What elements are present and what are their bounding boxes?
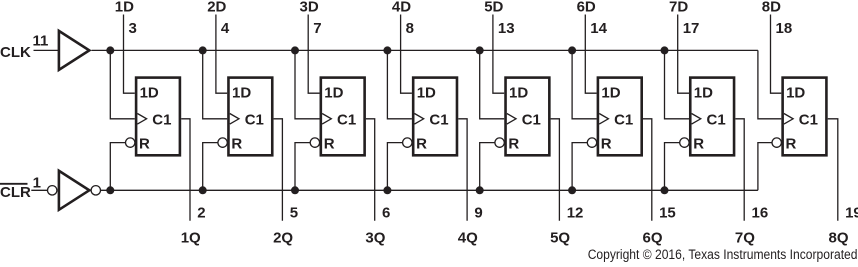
wire D input 8 — [771, 15, 782, 94]
svg-text:6: 6 — [382, 204, 390, 221]
svg-text:C1: C1 — [707, 111, 726, 128]
wire CLK drop 5 — [480, 50, 505, 118]
wire D input 6 — [585, 15, 596, 94]
svg-text:16: 16 — [752, 204, 769, 221]
svg-text:2Q: 2Q — [273, 230, 293, 247]
wire R drop 5 — [480, 143, 495, 191]
node CLK junction 2 — [199, 46, 207, 54]
node CLR junction 2 — [199, 186, 207, 194]
flip-flop 7 — [680, 78, 734, 156]
svg-text:4Q: 4Q — [458, 230, 478, 247]
wire Q output 7 — [735, 119, 744, 221]
svg-text:R: R — [231, 136, 242, 153]
flip-flop 1 — [126, 78, 180, 156]
node CLR junction 3 — [291, 186, 299, 194]
inverter CLR driver — [59, 171, 89, 210]
svg-text:11: 11 — [33, 33, 49, 50]
svg-text:CLR: CLR — [0, 184, 31, 201]
wire CLK drop 4 — [387, 50, 412, 118]
svg-text:C1: C1 — [245, 111, 264, 128]
svg-text:18: 18 — [776, 20, 793, 37]
svg-text:R: R — [139, 136, 150, 153]
svg-text:7: 7 — [313, 20, 321, 37]
svg-text:8: 8 — [406, 20, 414, 37]
flip-flop 6 — [587, 78, 641, 156]
wire CLK drop 1 — [110, 50, 135, 118]
flip-flop 3 — [310, 78, 364, 156]
CLR input label overline — [0, 183, 28, 185]
wire Q output 5 — [551, 119, 560, 221]
svg-text:R: R — [601, 136, 612, 153]
wire R drop 3 — [295, 143, 310, 191]
wire D input 4 — [401, 15, 412, 94]
flip-flop 4 — [403, 78, 457, 156]
wire D input 7 — [678, 15, 689, 94]
svg-text:1: 1 — [33, 175, 41, 192]
wire D input 5 — [493, 15, 504, 94]
wire Q output 4 — [458, 119, 467, 221]
wire D input 3 — [308, 15, 319, 94]
svg-text:14: 14 — [590, 20, 607, 37]
svg-text:1D: 1D — [115, 0, 134, 16]
svg-text:6Q: 6Q — [642, 230, 662, 247]
svg-text:4: 4 — [221, 20, 230, 37]
svg-text:5D: 5D — [484, 0, 503, 16]
node CLR junction 7 — [661, 186, 669, 194]
svg-text:R: R — [693, 136, 704, 153]
wire Q output 8 — [828, 119, 838, 221]
wire Q output 3 — [366, 119, 375, 221]
svg-text:15: 15 — [659, 204, 676, 221]
svg-text:17: 17 — [683, 20, 700, 37]
flip-flop 5 — [495, 78, 549, 156]
inverter CLR input bubble — [48, 186, 57, 195]
wire CLK drop 7 — [665, 50, 690, 118]
svg-text:13: 13 — [498, 20, 515, 37]
svg-text:CLK: CLK — [0, 44, 31, 61]
svg-text:C1: C1 — [337, 111, 356, 128]
svg-text:C1: C1 — [429, 111, 448, 128]
svg-text:12: 12 — [567, 204, 584, 221]
flip-flop 8 — [772, 78, 826, 156]
wire R drop 2 — [203, 143, 218, 191]
node CLK junction 6 — [568, 46, 576, 54]
buffer CLK driver — [59, 31, 89, 70]
wire R drop 6 — [572, 143, 587, 191]
svg-text:3D: 3D — [300, 0, 319, 16]
node CLK junction 3 — [291, 46, 299, 54]
wire CLK drop 8 — [758, 50, 781, 118]
svg-text:2D: 2D — [207, 0, 226, 16]
wire R drop 4 — [387, 143, 402, 191]
wire CLK drop 2 — [203, 50, 228, 118]
svg-text:R: R — [786, 136, 797, 153]
node CLK junction 7 — [661, 46, 669, 54]
svg-text:1D: 1D — [509, 84, 528, 101]
wire CLR input — [31, 189, 47, 191]
svg-text:1D: 1D — [786, 84, 805, 101]
svg-text:2: 2 — [197, 204, 205, 221]
svg-text:7Q: 7Q — [735, 230, 755, 247]
wire D input 2 — [216, 15, 227, 94]
svg-text:1Q: 1Q — [181, 230, 201, 247]
node CLR junction 6 — [568, 186, 576, 194]
wire CLK drop 3 — [295, 50, 320, 118]
svg-text:5Q: 5Q — [550, 230, 570, 247]
inverter CLR output bubble — [91, 186, 100, 195]
node CLR junction 1 — [106, 186, 114, 194]
svg-text:1D: 1D — [324, 84, 343, 101]
svg-text:C1: C1 — [614, 111, 633, 128]
wire Q output 2 — [274, 119, 283, 221]
node CLK junction 4 — [383, 46, 391, 54]
svg-text:1D: 1D — [140, 84, 159, 101]
svg-text:1D: 1D — [601, 84, 620, 101]
svg-text:C1: C1 — [799, 111, 818, 128]
node CLK junction 5 — [476, 46, 484, 54]
svg-text:7D: 7D — [669, 0, 688, 16]
svg-text:C1: C1 — [152, 111, 171, 128]
svg-text:6D: 6D — [577, 0, 596, 16]
svg-text:5: 5 — [290, 204, 298, 221]
wire Q output 1 — [181, 119, 190, 221]
svg-text:1D: 1D — [417, 84, 436, 101]
wire Q output 6 — [643, 119, 652, 221]
node CLR junction 4 — [383, 186, 391, 194]
svg-text:R: R — [416, 136, 427, 153]
svg-text:8D: 8D — [762, 0, 781, 16]
svg-text:3: 3 — [129, 20, 137, 37]
flip-flop 2 — [218, 78, 272, 156]
svg-text:8Q: 8Q — [828, 230, 848, 247]
svg-text:1D: 1D — [694, 84, 713, 101]
svg-text:R: R — [324, 136, 335, 153]
wire D input 1 — [124, 15, 135, 94]
wire CLK input — [34, 49, 59, 51]
node CLR junction 5 — [476, 186, 484, 194]
wire CLK bus — [92, 49, 758, 51]
svg-text:1D: 1D — [232, 84, 251, 101]
svg-text:C1: C1 — [522, 111, 541, 128]
svg-text:9: 9 — [474, 204, 482, 221]
wire R drop 1 — [110, 143, 125, 191]
svg-text:4D: 4D — [392, 0, 411, 16]
wire CLR bus — [101, 189, 758, 191]
svg-text:3Q: 3Q — [365, 230, 385, 247]
wire CLK drop 6 — [572, 50, 597, 118]
svg-text:Copyright © 2016, Texas Instru: Copyright © 2016, Texas Instruments Inco… — [588, 247, 858, 262]
svg-text:R: R — [508, 136, 519, 153]
node CLK junction 1 — [106, 46, 114, 54]
wire R drop 7 — [665, 143, 680, 191]
wire R drop 8 — [758, 143, 772, 191]
svg-text:19: 19 — [845, 204, 858, 221]
